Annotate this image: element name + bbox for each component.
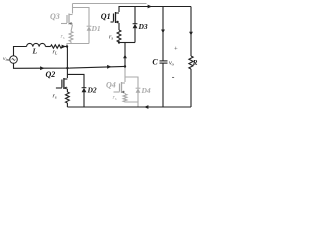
junction mid-left (66, 67, 68, 69)
wire Q2 source (66, 89, 68, 92)
wire gray D4 top stub (125, 77, 138, 88)
wire D3 branch (134, 7, 136, 24)
svg-text:rs: rs (109, 35, 113, 41)
svg-text:rs: rs (61, 34, 65, 40)
wire top rail (119, 7, 191, 13)
inductor L (27, 43, 46, 46)
wire D2 bottom (83, 92, 85, 107)
wire Q1 source (118, 23, 120, 30)
resistor r_s of Q4 (gray) (123, 94, 127, 102)
svg-text:Q2: Q2 (46, 70, 56, 79)
svg-text:rs: rs (113, 95, 117, 101)
wire gray Q4 drain (124, 67, 126, 83)
diode D4 (gray) (136, 88, 141, 93)
node A (66, 45, 68, 47)
wire capacitor bottom (162, 63, 164, 107)
svg-text:D1: D1 (91, 24, 101, 33)
wire source bottom / mid rail (14, 63, 126, 68)
svg-text:rs: rs (53, 94, 57, 100)
wire Q2 source to bottom rail (66, 103, 68, 107)
wire gray D4 bottom (137, 93, 139, 103)
svg-text:Q3: Q3 (50, 12, 60, 21)
svg-text:rL: rL (53, 50, 58, 56)
wire bottom rail (67, 106, 191, 108)
wire L to r_L (46, 46, 51, 48)
svg-text:L: L (32, 47, 38, 56)
svg-text:Q1: Q1 (101, 12, 111, 21)
svg-text:D4: D4 (141, 86, 151, 95)
wire gray top rail (73, 3, 147, 5)
wire gray D1 bottom (88, 31, 90, 44)
resistor r_L (51, 45, 63, 48)
diode D1 (gray) (87, 26, 92, 31)
wire gray Q3 source (71, 25, 73, 32)
resistor r_s of Q2 (66, 92, 70, 103)
junction mid-right (124, 65, 126, 67)
resistor r_s of Q3 (gray) (69, 32, 73, 42)
svg-text:Q4: Q4 (106, 81, 116, 90)
wire load branch bottom (190, 69, 192, 107)
svg-text:R: R (192, 59, 198, 67)
wire gray Q3 drain (72, 4, 74, 14)
junction Q1 source node (118, 41, 120, 43)
svg-text:D3: D3 (138, 22, 148, 31)
wire capacitor top (162, 7, 164, 61)
voltage source v_in (10, 56, 18, 64)
svg-text:D2: D2 (87, 86, 97, 95)
transistor Q1 (111, 12, 120, 24)
wire D3 bottom (134, 28, 136, 42)
diode D2 (82, 88, 87, 93)
wire D2 top stub (67, 74, 84, 87)
wire r_L to node A with arrow (62, 46, 67, 48)
svg-text:+: + (174, 46, 178, 53)
wire gray D1 top stub (73, 8, 90, 27)
capacitor C (160, 60, 168, 62)
svg-text:C: C (152, 58, 158, 67)
svg-text:-: - (172, 72, 175, 81)
resistor r_s of Q1 (117, 30, 121, 42)
wire source top (14, 47, 27, 56)
resistor R (189, 56, 193, 69)
wire Q2 drain (66, 68, 68, 78)
svg-text:vin: vin (3, 56, 10, 62)
transistor Q4 (gray) (114, 82, 126, 94)
transistor Q2 (56, 78, 68, 90)
wire gray Q4 bottom to rail (125, 102, 138, 107)
transistor Q3 (gray) (61, 14, 73, 26)
wire load branch top (190, 7, 192, 57)
wire node A down (66, 47, 68, 69)
wire Q1 source node to D3 (119, 42, 135, 44)
wire gray Q4 source (124, 93, 126, 94)
diode D3 (133, 24, 138, 29)
svg-text:vo: vo (169, 61, 175, 67)
wire down from Q1 source node to mid rail (124, 43, 126, 67)
wire gray Q3 source to node A (67, 42, 89, 47)
